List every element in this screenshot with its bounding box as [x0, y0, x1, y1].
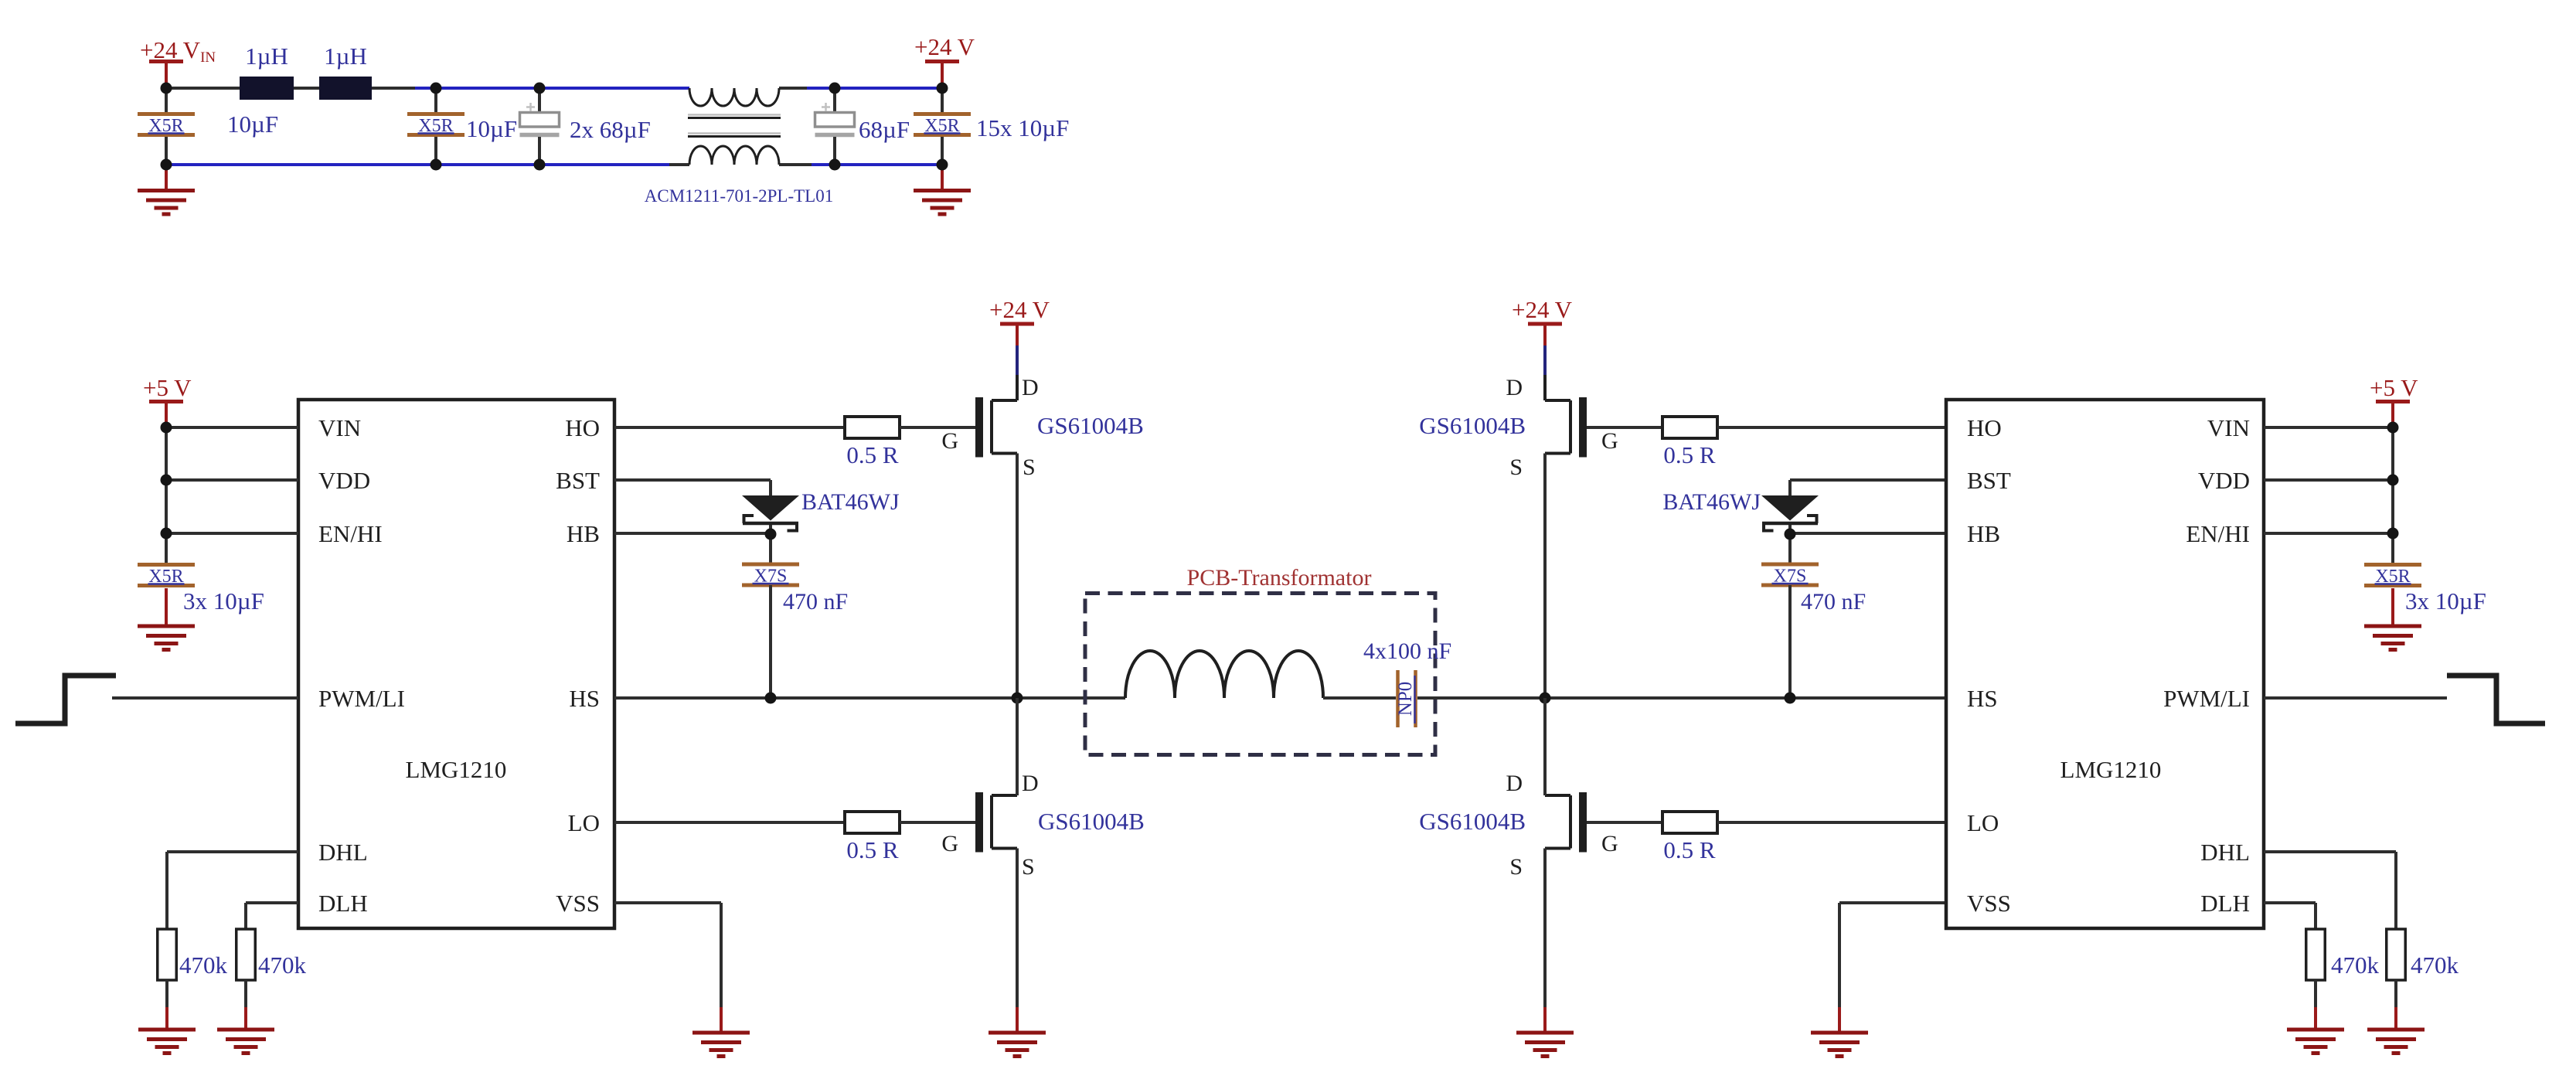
- svg-text:DLH: DLH: [318, 890, 368, 917]
- svg-text:VDD: VDD: [2198, 467, 2250, 494]
- svg-text:+5 V: +5 V: [2370, 374, 2418, 401]
- svg-text:PWM/LI: PWM/LI: [2163, 685, 2250, 712]
- svg-text:VIN: VIN: [318, 414, 361, 441]
- svg-text:VSS: VSS: [1967, 890, 2011, 917]
- svg-text:2x 68µF: 2x 68µF: [570, 116, 651, 143]
- svg-text:VSS: VSS: [556, 890, 600, 917]
- svg-text:S: S: [1509, 454, 1523, 480]
- svg-text:DHL: DHL: [2200, 839, 2250, 866]
- svg-text:470 nF: 470 nF: [1801, 589, 1866, 614]
- svg-text:3x 10µF: 3x 10µF: [183, 587, 264, 614]
- svg-text:BAT46WJ: BAT46WJ: [801, 489, 900, 515]
- svg-text:LO: LO: [568, 809, 600, 836]
- svg-text:HS: HS: [569, 685, 600, 712]
- svg-text:VDD: VDD: [318, 467, 370, 494]
- svg-text:1µH: 1µH: [245, 43, 288, 70]
- svg-text:0.5 R: 0.5 R: [1663, 441, 1716, 468]
- svg-text:+5 V: +5 V: [143, 374, 192, 401]
- svg-text:HB: HB: [1967, 520, 2000, 547]
- svg-text:4x100 nF: 4x100 nF: [1363, 638, 1451, 664]
- svg-text:470k: 470k: [179, 952, 228, 979]
- svg-text:BAT46WJ: BAT46WJ: [1662, 489, 1761, 515]
- svg-text:HO: HO: [565, 414, 600, 441]
- svg-text:+24 V: +24 V: [914, 33, 975, 60]
- svg-text:HB: HB: [567, 520, 600, 547]
- svg-text:VIN: VIN: [2207, 414, 2250, 441]
- svg-text:LMG1210: LMG1210: [406, 756, 507, 783]
- svg-text:HS: HS: [1967, 685, 1998, 712]
- svg-text:0.5 R: 0.5 R: [1663, 836, 1716, 863]
- svg-text:D: D: [1022, 771, 1039, 796]
- svg-text:G: G: [941, 831, 958, 856]
- svg-text:470k: 470k: [2331, 952, 2380, 979]
- svg-text:NP0: NP0: [1395, 682, 1416, 716]
- svg-text:G: G: [1601, 831, 1618, 856]
- svg-text:10µF: 10µF: [227, 111, 278, 138]
- svg-text:BST: BST: [1967, 467, 2011, 494]
- svg-text:+24 V: +24 V: [1512, 296, 1573, 323]
- svg-text:GS61004B: GS61004B: [1419, 412, 1526, 439]
- svg-text:GS61004B: GS61004B: [1419, 808, 1526, 835]
- svg-text:ACM1211-701-2PL-TL01: ACM1211-701-2PL-TL01: [645, 186, 833, 206]
- svg-text:D: D: [1506, 771, 1523, 796]
- svg-text:1µH: 1µH: [324, 43, 367, 70]
- svg-text:3x 10µF: 3x 10µF: [2405, 587, 2486, 614]
- svg-text:G: G: [941, 428, 958, 454]
- svg-text:GS61004B: GS61004B: [1038, 808, 1145, 835]
- svg-text:470k: 470k: [258, 952, 307, 979]
- svg-text:EN/HI: EN/HI: [318, 520, 383, 547]
- svg-text:470 nF: 470 nF: [783, 589, 848, 614]
- svg-text:BST: BST: [556, 467, 600, 494]
- svg-text:D: D: [1022, 375, 1039, 400]
- svg-text:DHL: DHL: [318, 839, 368, 866]
- svg-text:0.5 R: 0.5 R: [846, 836, 899, 863]
- svg-text:LO: LO: [1967, 809, 1999, 836]
- svg-text:PCB-Transformator: PCB-Transformator: [1187, 565, 1372, 591]
- svg-text:0.5 R: 0.5 R: [846, 441, 899, 468]
- svg-text:EN/HI: EN/HI: [2186, 520, 2250, 547]
- svg-text:S: S: [1023, 454, 1036, 480]
- svg-text:PWM/LI: PWM/LI: [318, 685, 405, 712]
- svg-text:10µF: 10µF: [466, 115, 517, 142]
- svg-text:470k: 470k: [2411, 952, 2459, 979]
- svg-text:S: S: [1022, 854, 1035, 880]
- svg-text:+24 V: +24 V: [989, 296, 1050, 323]
- svg-text:D: D: [1506, 375, 1523, 400]
- svg-text:DLH: DLH: [2200, 890, 2250, 917]
- svg-text:68µF: 68µF: [859, 116, 910, 143]
- svg-text:15x 10µF: 15x 10µF: [976, 114, 1069, 141]
- svg-text:S: S: [1509, 854, 1523, 880]
- svg-text:G: G: [1601, 428, 1618, 454]
- svg-text:LMG1210: LMG1210: [2060, 756, 2162, 783]
- svg-text:GS61004B: GS61004B: [1037, 412, 1144, 439]
- svg-text:HO: HO: [1967, 414, 2002, 441]
